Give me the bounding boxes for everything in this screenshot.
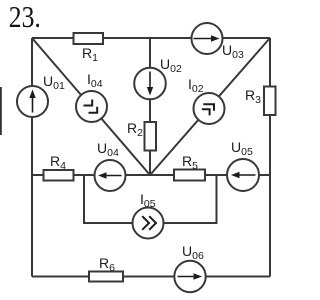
- source U02: [134, 68, 166, 100]
- svg-text:R1: R1: [82, 45, 98, 64]
- wire diagonal left: [32, 38, 150, 175]
- source U06: [174, 261, 205, 292]
- source U03: [192, 23, 223, 54]
- svg-text:U05: U05: [231, 139, 253, 158]
- source U01: [17, 86, 48, 117]
- source U04: [95, 160, 126, 191]
- source I05: [133, 208, 164, 239]
- svg-text:U04: U04: [97, 140, 119, 159]
- resistor R2: [145, 122, 157, 151]
- wire diagonal right: [150, 38, 270, 175]
- wire middle horizontal: [32, 174, 270, 176]
- svg-text:I05: I05: [140, 191, 156, 210]
- source I02: [194, 93, 225, 124]
- wire center vertical R2 branch: [149, 38, 151, 175]
- resistor R5: [174, 170, 205, 181]
- svg-text:U01: U01: [43, 73, 65, 92]
- resistor R6: [89, 272, 123, 282]
- svg-text:I04: I04: [87, 71, 103, 90]
- svg-text:R2: R2: [127, 120, 143, 139]
- source I04: [76, 91, 107, 122]
- source U05: [227, 159, 259, 191]
- svg-text:U06: U06: [182, 243, 204, 262]
- svg-text:U02: U02: [160, 56, 182, 75]
- wire right: [269, 38, 271, 277]
- svg-text:I02: I02: [188, 76, 204, 95]
- wire top: [32, 37, 270, 39]
- wire left: [31, 38, 33, 277]
- wire I05 loop: [84, 175, 217, 223]
- resistor R1: [74, 33, 104, 44]
- resistor R3: [264, 87, 276, 116]
- svg-text:23.: 23.: [9, 0, 41, 34]
- edge artifact: [0, 87, 2, 135]
- svg-text:U03: U03: [222, 42, 244, 61]
- wire bottom: [32, 276, 270, 278]
- resistor R4: [44, 170, 74, 181]
- svg-text:R3: R3: [245, 87, 261, 106]
